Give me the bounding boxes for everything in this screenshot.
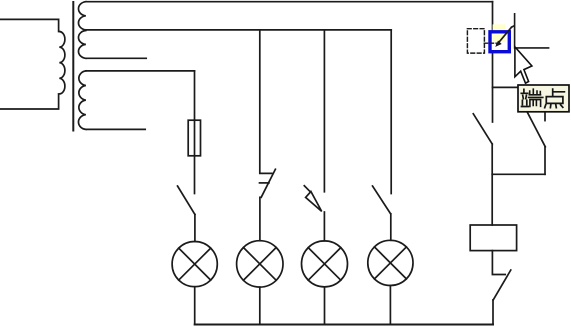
wire: HL2 to bottom bus bbox=[259, 287, 261, 324]
switch S3 blade triangle bbox=[306, 192, 322, 212]
wire: left pole below blade bbox=[491, 144, 493, 225]
wire: fuse branch vertical upper bbox=[194, 71, 196, 120]
crosshair bbox=[515, 14, 549, 48]
wire: stub lead of winding B bbox=[86, 57, 146, 59]
wire: winding C bottom stub bbox=[87, 128, 146, 130]
wire: top bus L1 bbox=[86, 1, 493, 3]
mouse cursor arrow bbox=[515, 47, 532, 83]
lamp HL3 bbox=[302, 241, 348, 287]
switch S3 stub bbox=[304, 186, 310, 192]
wire: bottom bus N bbox=[195, 324, 493, 326]
ghost blade glyph inside marker bbox=[497, 26, 513, 44]
relay coil KM bbox=[470, 225, 516, 251]
wire: S6 to bottom bus bbox=[492, 300, 494, 325]
transformer core bbox=[72, 2, 74, 131]
wire: winding C top lead to fuse branch bbox=[86, 70, 195, 72]
wire: right pole vertical bbox=[544, 87, 546, 120]
transformer T1 secondary winding A (top) bbox=[78, 2, 85, 30]
wire through fuse down to switch S1 bbox=[194, 120, 196, 193]
wire: S3 to lamp HL3 bbox=[323, 212, 325, 241]
switch S5b blade (right pole) bbox=[527, 112, 545, 147]
switch S2 blade bbox=[261, 169, 275, 197]
ghost yellow patch bbox=[493, 24, 506, 41]
fuse FU1 bbox=[188, 120, 200, 156]
lamp HL2 bbox=[237, 241, 283, 287]
wire: below relay coil bbox=[492, 251, 505, 275]
wire: second bus L2 bbox=[86, 29, 391, 31]
endpoint marker white backing bbox=[489, 31, 511, 53]
transformer T1 primary winding bbox=[0, 19, 65, 109]
wire: branch 4 vertical bbox=[390, 30, 392, 194]
ghost blade arrowhead bbox=[496, 41, 501, 46]
wire: HL1 to bottom bus bbox=[194, 287, 196, 325]
wire: branch 3 vertical bbox=[323, 30, 325, 192]
switch S5a blade (left pole) bbox=[473, 114, 492, 144]
wire: S2 to lamp HL2 bbox=[259, 197, 261, 240]
tooltip text: 端 (right part) bbox=[529, 89, 543, 106]
transformer T1 secondary winding C (bottom) bbox=[78, 71, 85, 129]
lamp HL1 bbox=[172, 242, 217, 287]
selection dashed rectangle bbox=[467, 29, 484, 53]
wire: tee to right pole bbox=[493, 86, 546, 88]
endpoint snap marker (blue square) bbox=[490, 32, 509, 52]
switch S4 blade bbox=[373, 186, 391, 214]
wire: S4 to lamp HL4 bbox=[390, 214, 392, 241]
wire: branch 2 vertical bbox=[260, 30, 272, 174]
wire: joining bar bbox=[492, 173, 545, 175]
selection dashed line bbox=[484, 42, 498, 44]
switch S6 blade bbox=[493, 270, 511, 300]
wire: HL4 to bottom bus bbox=[389, 286, 391, 325]
lamp HL4 bbox=[368, 240, 413, 285]
wire: HL3 to bottom bus bbox=[324, 287, 326, 325]
tooltip text: 点 bbox=[545, 89, 565, 108]
tooltip box bbox=[518, 85, 569, 112]
switch S2 tick bbox=[260, 182, 269, 184]
wire: right feeder drop from top bus bbox=[492, 2, 494, 122]
switch S1 blade bbox=[178, 186, 195, 215]
transformer T1 secondary winding B bbox=[78, 31, 85, 59]
wire: right pole below blade bbox=[544, 147, 546, 175]
wire: S1 to lamp HL1 bbox=[194, 215, 196, 242]
tooltip text: 端 (left radical) bbox=[521, 89, 528, 106]
